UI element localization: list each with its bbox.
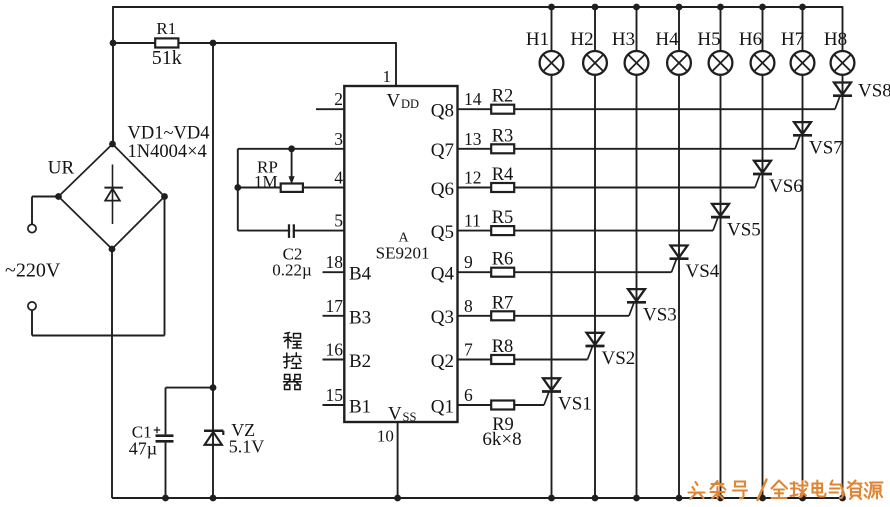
wire lamp column H7 lower <box>802 75 804 498</box>
junction dot top bus column H7 <box>799 4 806 11</box>
watermark slash <box>758 480 767 501</box>
op-amp U1 IC A SE9201 body <box>344 86 457 422</box>
lamp H6 <box>751 51 775 75</box>
wire pin 15 stub <box>323 404 345 406</box>
svg-text:H3: H3 <box>612 29 635 50</box>
svg-text:Q3: Q3 <box>431 307 454 328</box>
wire lamp column H3 upper <box>636 8 638 51</box>
svg-text:H6: H6 <box>739 29 762 50</box>
resistor R9 <box>491 401 514 410</box>
wire pin 13 Q7 row to thyristor gate <box>458 148 796 150</box>
svg-text:Q4: Q4 <box>431 264 455 285</box>
wire pin 7 Q2 row to thyristor gate <box>458 359 588 361</box>
junction dot ground bus column H5 <box>717 495 724 502</box>
svg-text:Q2: Q2 <box>431 351 454 372</box>
svg-text:UR: UR <box>48 158 75 179</box>
resistor R2 <box>491 105 514 114</box>
potentiometer RP <box>281 184 303 192</box>
svg-text:Q1: Q1 <box>431 396 454 417</box>
bridge rectifier UR VD1~VD4 diamond <box>59 144 165 249</box>
svg-text:6k×8: 6k×8 <box>482 429 521 450</box>
junction dot top bus column H5 <box>717 4 724 11</box>
svg-text:VS1: VS1 <box>558 394 592 415</box>
svg-text:18: 18 <box>326 252 344 272</box>
AC input terminal 1 <box>28 224 36 232</box>
svg-text:17: 17 <box>326 296 344 316</box>
svg-text:4: 4 <box>334 168 343 188</box>
lamp H3 <box>625 51 649 75</box>
svg-text:SE9201: SE9201 <box>376 244 430 263</box>
svg-text:V: V <box>387 91 401 112</box>
junction dot top bus column H3 <box>633 4 640 11</box>
wire R1 row from left vertical to pin1 corner <box>113 42 396 44</box>
node bridge right AC <box>161 193 168 200</box>
resistor R5 <box>491 226 514 235</box>
wire lamp column H4 lower <box>678 75 680 498</box>
thyristor VS2 <box>586 333 605 360</box>
svg-text:VS5: VS5 <box>727 219 761 240</box>
svg-text:VS4: VS4 <box>686 261 720 282</box>
svg-text:R6: R6 <box>492 250 514 270</box>
wire RP wiper arrow <box>289 149 295 185</box>
thyristor VS8 <box>833 83 852 110</box>
svg-text:B2: B2 <box>349 351 371 372</box>
svg-text:6: 6 <box>464 385 473 405</box>
svg-text:R8: R8 <box>492 337 514 357</box>
svg-text:13: 13 <box>464 129 482 149</box>
junction dot ground bus column H1 <box>548 495 555 502</box>
svg-text:H2: H2 <box>570 29 593 50</box>
node bridge bottom (-) <box>109 246 116 253</box>
svg-text:VS6: VS6 <box>769 176 803 197</box>
thyristor VS5 <box>711 204 730 231</box>
junction dot ground bus column H2 <box>592 495 599 502</box>
junction dot C1 at ground bus <box>162 495 169 502</box>
svg-text:DD: DD <box>401 97 419 111</box>
svg-text:5.1V: 5.1V <box>229 437 265 457</box>
wire C1 branch horizontal <box>166 387 214 389</box>
svg-text:R7: R7 <box>492 293 514 313</box>
junction dot top bus column H4 <box>676 4 683 11</box>
svg-text:Q8: Q8 <box>431 101 454 122</box>
svg-text:R4: R4 <box>492 165 514 185</box>
svg-text:16: 16 <box>326 340 344 360</box>
svg-text:VS7: VS7 <box>809 138 843 159</box>
wire AC terminal 2 to bridge right <box>32 197 165 336</box>
capacitor C1 <box>154 388 174 498</box>
junction dot ground bus column H7 <box>799 495 806 502</box>
wire left-side vertical RP/C2 <box>237 149 239 231</box>
junction dot pin3 node wiper <box>288 145 295 152</box>
svg-text:B4: B4 <box>349 264 372 285</box>
junction dot ground bus column H8 <box>839 495 846 502</box>
svg-text:15: 15 <box>326 385 344 405</box>
wire pin 6 Q1 row to thyristor gate <box>458 404 545 406</box>
svg-text:Q6: Q6 <box>431 179 454 200</box>
junction dot ground bus column H6 <box>759 495 766 502</box>
svg-text:51k: 51k <box>152 47 182 69</box>
thyristor VS7 <box>793 122 812 149</box>
svg-text:B3: B3 <box>349 307 371 328</box>
capacitor C2 <box>289 224 294 238</box>
wire lamp column H5 lower <box>720 75 722 498</box>
wire lamp column H5 upper <box>720 8 722 51</box>
wire lamp column H8 lower <box>842 75 844 498</box>
watermark 头条号/全球电气资源 (drawn) <box>689 480 883 501</box>
label VSS <box>388 403 416 424</box>
wire lamp column H7 upper <box>802 8 804 51</box>
wire pin 14 Q8 row to thyristor gate <box>458 108 836 110</box>
bridge inner diode symbol <box>104 165 123 225</box>
svg-text:9: 9 <box>464 252 473 272</box>
junction dot VZ at ground bus <box>210 495 217 502</box>
svg-text:SS: SS <box>403 410 417 424</box>
resistor R7 <box>491 311 514 320</box>
wire pin 18 stub <box>323 271 345 273</box>
svg-text:H8: H8 <box>824 29 847 50</box>
wire pin 2 stub <box>316 108 344 110</box>
wire VSS pin 10 to ground bus <box>397 422 399 498</box>
svg-text:1M: 1M <box>254 172 278 191</box>
svg-text:47µ: 47µ <box>129 439 157 459</box>
resistor R4 <box>491 183 514 192</box>
lamp H2 <box>583 51 607 75</box>
wire lamp column H4 upper <box>678 8 680 51</box>
wire left vertical from top bus to bridge top <box>112 6 114 144</box>
svg-text:H5: H5 <box>697 29 720 50</box>
wire pin 5 stub <box>238 230 344 232</box>
thyristor VS6 <box>753 161 772 188</box>
junction dot right of R1 (VZ branch) <box>210 40 217 47</box>
svg-text:R3: R3 <box>492 126 514 146</box>
lamp H5 <box>709 51 733 75</box>
label VDD <box>387 91 420 112</box>
wire pin 4 stub <box>238 187 344 189</box>
wire lamp column H2 lower <box>594 75 596 498</box>
wire from R1 node down to ground (through VZ) <box>212 43 214 498</box>
wire pin 11 Q5 row to thyristor gate <box>458 230 714 232</box>
junction dot VSS at ground bus <box>394 495 401 502</box>
AC input terminal 2 <box>28 302 36 310</box>
wire bottom ground bus <box>112 497 843 499</box>
svg-text:H7: H7 <box>781 29 804 50</box>
wire pin 12 Q6 row to thyristor gate <box>458 187 756 189</box>
svg-text:R1: R1 <box>156 19 176 38</box>
wire top supply bus <box>113 6 843 8</box>
lamp H8 <box>831 51 855 75</box>
svg-text:H4: H4 <box>655 29 679 50</box>
lamp H1 <box>540 51 564 75</box>
lamp H4 <box>667 51 691 75</box>
junction dot left of R1 <box>110 40 117 47</box>
svg-text:11: 11 <box>464 211 481 231</box>
wire lamp column H6 upper <box>762 8 764 51</box>
wire pin 3 stub <box>238 148 344 150</box>
thyristor VS1 <box>542 378 561 405</box>
svg-text:VD1~VD4: VD1~VD4 <box>128 124 210 144</box>
junction dot ground bus column H3 <box>633 495 640 502</box>
wire lamp column H1 lower <box>551 75 553 498</box>
svg-text:~220V: ~220V <box>5 260 61 282</box>
junction dot top bus column H6 <box>759 4 766 11</box>
svg-text:5: 5 <box>334 211 343 231</box>
svg-text:V: V <box>388 403 402 424</box>
resistor R8 <box>491 355 514 364</box>
svg-text:Q5: Q5 <box>431 222 454 243</box>
junction dot top bus column H1 <box>548 4 555 11</box>
node bridge top (+) <box>109 141 116 148</box>
junction dot top bus column H2 <box>592 4 599 11</box>
label 程控器 (program controller, drawn) <box>284 333 302 390</box>
svg-text:R2: R2 <box>492 87 514 107</box>
svg-text:VS2: VS2 <box>602 348 636 369</box>
wire AC terminal 1 to bridge left <box>32 197 59 225</box>
svg-text:10: 10 <box>377 426 394 445</box>
junction dot C1 branch <box>210 384 217 391</box>
wire pin 17 stub <box>323 315 345 317</box>
resistor R1 <box>155 38 178 47</box>
svg-text:8: 8 <box>464 296 473 316</box>
svg-text:H1: H1 <box>526 29 549 50</box>
wire pin 9 Q4 row to thyristor gate <box>458 271 672 273</box>
wire pin 8 Q3 row to thyristor gate <box>458 315 630 317</box>
svg-text:7: 7 <box>464 340 473 360</box>
node bridge left AC <box>55 193 62 200</box>
svg-text:1N4004×4: 1N4004×4 <box>128 142 207 162</box>
wire lamp column H2 upper <box>594 8 596 51</box>
svg-text:3: 3 <box>334 129 343 149</box>
thyristor VS4 <box>670 246 689 273</box>
wire pin 16 stub <box>323 359 345 361</box>
resistor R6 <box>491 268 514 277</box>
svg-text:VS3: VS3 <box>643 305 677 326</box>
svg-text:R5: R5 <box>492 208 514 228</box>
svg-text:2: 2 <box>334 89 343 109</box>
svg-text:VS8: VS8 <box>858 80 890 101</box>
zener diode VZ <box>204 431 223 445</box>
junction dot ground bus column H4 <box>676 495 683 502</box>
svg-text:0.22µ: 0.22µ <box>272 261 312 280</box>
wire pin1 drop into IC VDD <box>395 42 397 86</box>
wire lamp column H6 lower <box>762 75 764 498</box>
junction dot pin4 node <box>234 184 241 191</box>
svg-text:B1: B1 <box>349 397 371 418</box>
lamp H7 <box>791 51 815 75</box>
svg-text:1: 1 <box>383 67 392 86</box>
wire lamp column H3 lower <box>636 75 638 498</box>
wire lamp column H1 upper <box>551 8 553 51</box>
svg-text:12: 12 <box>464 168 482 188</box>
wire bridge bottom to ground bus <box>111 249 113 498</box>
thyristor VS3 <box>627 289 646 316</box>
wire lamp column H8 upper <box>842 6 844 51</box>
svg-text:14: 14 <box>464 89 482 109</box>
resistor R3 <box>491 144 514 153</box>
svg-text:Q7: Q7 <box>431 140 454 161</box>
